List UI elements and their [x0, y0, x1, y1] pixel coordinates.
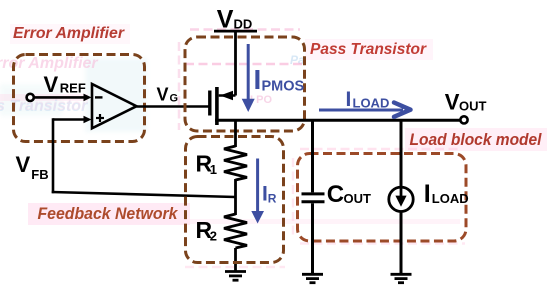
output terminal VOUT: [460, 116, 467, 123]
current arrow IPMOS: [242, 44, 255, 112]
label R1: [196, 151, 218, 177]
resistor R1: [224, 146, 247, 180]
wire VFB vertical: [52, 118, 55, 193]
label IR: [262, 183, 277, 206]
wire R2 to ground: [234, 248, 237, 272]
svg-text:2: 2: [210, 229, 217, 244]
svg-text:V: V: [157, 85, 169, 105]
wire source to VDD: [234, 31, 237, 96]
PMOS pass transistor M1: [210, 87, 236, 125]
wire output to COUT: [311, 120, 314, 192]
current source ILOAD: [389, 187, 413, 211]
label ILOAD (top): [346, 88, 390, 111]
svg-text:REF: REF: [60, 81, 86, 96]
input terminal (VREF): [27, 94, 34, 101]
VDD supply bar: [214, 30, 257, 33]
feedback network dashed box: [186, 137, 284, 263]
svg-text:OUT: OUT: [344, 191, 372, 206]
label VOUT: [445, 90, 487, 115]
wire R1 to R2 (VFB node): [234, 179, 237, 215]
wire drain to R1: [234, 120, 237, 147]
svg-text:LOAD: LOAD: [432, 191, 469, 206]
ground (ILOAD): [391, 274, 412, 282]
ground (COUT): [302, 274, 323, 282]
svg-text:Error Amplifier: Error Amplifier: [13, 25, 125, 42]
svg-text:I: I: [346, 88, 352, 111]
svg-text:LOAD: LOAD: [353, 96, 390, 111]
ground (feedback): [225, 272, 246, 281]
svg-text:V: V: [16, 152, 31, 177]
load block dashed box: [298, 154, 467, 242]
svg-text:DD: DD: [234, 16, 253, 31]
svg-text:C: C: [327, 181, 344, 208]
wire output to ILOAD source: [400, 120, 403, 187]
label ILOAD (source): [424, 180, 469, 208]
svg-text:Pass Transistor: Pass Transistor: [310, 41, 427, 58]
svg-text:V: V: [44, 72, 59, 97]
wire VFB horizontal to R1/R2 junction: [52, 192, 236, 197]
wire feedback to op-amp non-inverting input: [53, 116, 92, 124]
svg-text:V: V: [445, 90, 460, 115]
current arrow ILOAD (top): [319, 103, 411, 117]
label IPMOS: [254, 64, 305, 95]
label VREF: [44, 72, 86, 97]
svg-text:Feedback Network: Feedback Network: [38, 205, 179, 223]
label VDD: [217, 6, 252, 34]
svg-text:FB: FB: [31, 167, 48, 182]
wire ILOAD source to ground: [400, 212, 403, 275]
svg-text:OUT: OUT: [459, 98, 487, 113]
label VG: [157, 85, 179, 105]
output rail wire (node VOUT): [215, 119, 464, 122]
current arrow IR: [251, 159, 264, 224]
wire COUT to ground: [311, 203, 314, 274]
label VFB: [16, 152, 49, 182]
wire op-amp output to gate (node VG): [137, 105, 210, 108]
svg-text:I: I: [424, 180, 431, 208]
resistor R2: [224, 214, 247, 248]
svg-text:G: G: [170, 93, 179, 105]
svg-text:R: R: [268, 192, 277, 206]
wire VREF to op-amp inverting input: [35, 94, 92, 102]
error amplifier dashed box: [14, 55, 145, 142]
svg-text:Load block model: Load block model: [410, 131, 542, 149]
label COUT: [327, 181, 371, 208]
svg-text:PMOS: PMOS: [262, 78, 305, 94]
svg-text:1: 1: [210, 162, 217, 177]
svg-text:V: V: [217, 6, 234, 34]
capacitor COUT: [302, 194, 325, 202]
svg-text:I: I: [254, 64, 262, 95]
op-amp U1: [92, 84, 137, 128]
pass transistor dashed box: [185, 37, 305, 131]
label R2: [196, 217, 218, 243]
